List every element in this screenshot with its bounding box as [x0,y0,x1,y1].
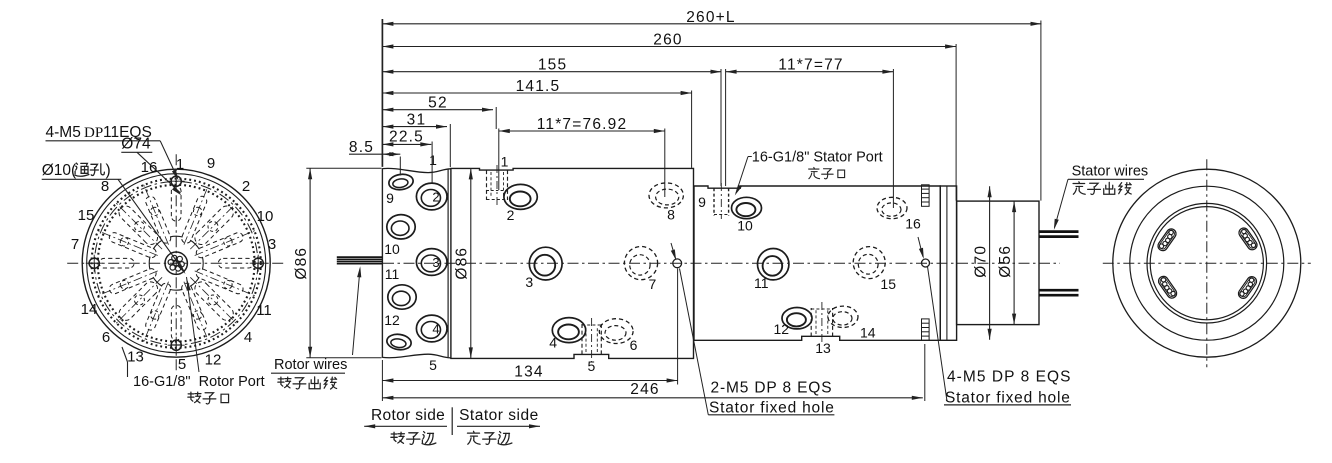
svg-text:22.5: 22.5 [389,129,424,146]
svg-text:16-G1/8" Rotor Port: 16-G1/8" Rotor Port [133,374,265,390]
svg-text:2: 2 [432,190,439,205]
svg-text:14: 14 [860,324,876,340]
svg-text:2: 2 [242,178,250,195]
svg-text:260: 260 [653,32,682,49]
svg-text:16: 16 [905,216,921,232]
svg-text:Stator fixed hole: Stator fixed hole [945,389,1071,406]
svg-text:7: 7 [71,236,79,253]
svg-text:11*7=76.92: 11*7=76.92 [537,116,628,133]
svg-text:5: 5 [588,358,596,374]
svg-text:2-M5 DP 8 EQS: 2-M5 DP 8 EQS [711,379,833,396]
svg-text:31: 31 [407,112,427,129]
svg-text:4: 4 [432,322,439,337]
svg-text:8.5: 8.5 [349,139,374,156]
svg-text:5: 5 [429,357,437,373]
svg-text:15: 15 [78,207,95,224]
svg-text:8: 8 [667,207,675,223]
svg-text:Ø70: Ø70 [972,245,989,278]
svg-text:4: 4 [244,329,252,346]
svg-text:6: 6 [102,329,110,346]
svg-text:9: 9 [207,155,215,172]
svg-text:Rotor side: Rotor side [371,407,445,424]
svg-text:52: 52 [428,95,448,112]
svg-text:Ø10(: Ø10( [42,162,77,179]
svg-text:Stator wires: Stator wires [1072,164,1149,180]
svg-text:11: 11 [385,266,400,282]
svg-text:10: 10 [257,208,274,225]
svg-text:14: 14 [81,301,98,318]
svg-text:3: 3 [432,255,439,270]
svg-text:13: 13 [127,349,144,366]
svg-text:DP: DP [84,125,103,141]
svg-text:12: 12 [205,352,222,369]
svg-text:11: 11 [256,302,272,319]
svg-text:134: 134 [514,364,543,381]
svg-text:9: 9 [386,190,394,206]
svg-text:141.5: 141.5 [516,78,561,95]
svg-text:15: 15 [880,276,896,292]
svg-text:246: 246 [630,381,659,398]
svg-text:Rotor wires: Rotor wires [274,357,347,373]
svg-text:12: 12 [774,321,790,337]
svg-text:8: 8 [101,178,109,195]
svg-text:11: 11 [754,275,769,291]
svg-text:Ø74: Ø74 [121,136,151,153]
svg-text:3: 3 [268,236,276,253]
svg-text:10: 10 [384,241,400,257]
svg-text:Ø56: Ø56 [997,245,1014,278]
svg-text:Stator fixed hole: Stator fixed hole [709,400,835,417]
svg-text:12: 12 [384,312,400,328]
svg-text:2: 2 [507,207,515,223]
svg-text:13: 13 [815,340,831,356]
svg-text:10: 10 [737,218,753,234]
svg-text:Ø86: Ø86 [454,247,471,280]
svg-text:4: 4 [549,335,557,351]
svg-text:Stator side: Stator side [459,407,539,424]
svg-text:16: 16 [141,159,158,176]
svg-text:5: 5 [178,356,186,373]
svg-text:3: 3 [525,274,533,290]
svg-text:16-G1/8" Stator Port: 16-G1/8" Stator Port [752,150,883,166]
svg-text:155: 155 [538,57,567,74]
svg-text:Ø86: Ø86 [293,247,310,280]
svg-text:4-M5 DP 8 EQS: 4-M5 DP 8 EQS [947,369,1072,386]
svg-text:1: 1 [501,154,509,170]
svg-text:260+L: 260+L [686,9,736,26]
svg-text:9: 9 [698,194,706,210]
svg-text:6: 6 [630,337,638,353]
svg-text:1: 1 [176,156,184,173]
svg-text:): ) [106,162,111,179]
svg-text:1: 1 [429,152,437,168]
svg-text:11*7=77: 11*7=77 [778,57,843,74]
svg-text:7: 7 [649,276,657,292]
svg-text:4-M5: 4-M5 [46,124,81,141]
